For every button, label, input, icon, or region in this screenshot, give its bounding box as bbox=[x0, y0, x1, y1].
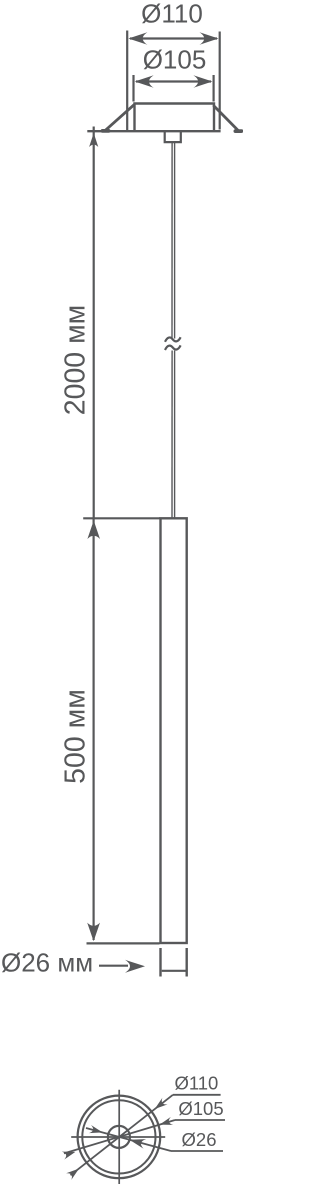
extension line Ø105 left bbox=[132, 75, 134, 102]
dimension line 500 (vertical) bbox=[92, 519, 94, 941]
circle Ø105 (inner) bbox=[82, 1100, 155, 1173]
arrow down at tube bottom bbox=[87, 923, 100, 942]
suspension cable lower segment bbox=[171, 351, 173, 518]
pendant tube bbox=[161, 518, 187, 943]
extension line at tube bottom bbox=[87, 942, 160, 944]
dimension line Ø110 bbox=[130, 37, 217, 39]
tube end cap bbox=[159, 948, 161, 977]
extension line at tube top bbox=[83, 517, 160, 519]
dimension line Ø105 bbox=[136, 80, 211, 82]
svg-text:Ø26: Ø26 bbox=[182, 1129, 217, 1150]
svg-text:Ø110: Ø110 bbox=[141, 0, 203, 29]
extension line Ø110 right bbox=[219, 32, 221, 130]
leader line Ø26 bbox=[99, 965, 128, 967]
arrow up at tube top bbox=[87, 521, 100, 540]
top view: centerline vertical bbox=[118, 1090, 120, 1184]
underline Ø110 (top view) bbox=[173, 1094, 221, 1096]
arrowhead Ø110 near bbox=[152, 1098, 167, 1113]
svg-text:Ø110: Ø110 bbox=[174, 1072, 218, 1093]
leader line Ø105 (top view) bbox=[64, 1120, 175, 1153]
arrowhead Ø26 near bbox=[128, 1135, 146, 1149]
leader line Ø110 (top view) bbox=[71, 1095, 173, 1175]
mounting body (recessed can) bbox=[135, 104, 215, 131]
underline Ø105 (top view) bbox=[175, 1119, 225, 1121]
circle Ø110 (outer) bbox=[78, 1096, 161, 1179]
leader line Ø26 (top view) bbox=[86, 1128, 171, 1151]
arrowhead Ø110 far bbox=[66, 1165, 81, 1180]
arrow up at ceiling bbox=[89, 133, 98, 147]
circle Ø26 (center) bbox=[108, 1126, 130, 1148]
spring clip right bbox=[214, 106, 241, 131]
arrowhead Ø105 near bbox=[158, 1117, 173, 1129]
svg-text:Ø105: Ø105 bbox=[143, 45, 207, 75]
svg-text:Ø105: Ø105 bbox=[178, 1098, 223, 1119]
underline Ø26 (top view) bbox=[171, 1150, 223, 1152]
suspension cable upper segment bbox=[171, 143, 173, 339]
top view: centerline horizontal bbox=[71, 1136, 165, 1138]
break symbol (two waves) bbox=[165, 337, 181, 342]
extension line Ø105 right bbox=[213, 75, 215, 102]
arrowhead Ø26 front bbox=[125, 960, 145, 973]
extension line Ø110 left bbox=[126, 31, 128, 131]
svg-text:Ø26 мм: Ø26 мм bbox=[1, 948, 93, 978]
arrowhead Ø26 far bbox=[89, 1125, 104, 1136]
arrowhead Ø105 far bbox=[62, 1148, 77, 1160]
svg-text:2000 мм: 2000 мм bbox=[60, 305, 92, 416]
cable gland bbox=[165, 132, 181, 143]
spring clip left bbox=[103, 105, 135, 131]
ceiling / trim flange line bbox=[87, 130, 220, 132]
svg-text:500 мм: 500 мм bbox=[60, 689, 92, 784]
dimension line 2000 (vertical) bbox=[93, 127, 95, 518]
